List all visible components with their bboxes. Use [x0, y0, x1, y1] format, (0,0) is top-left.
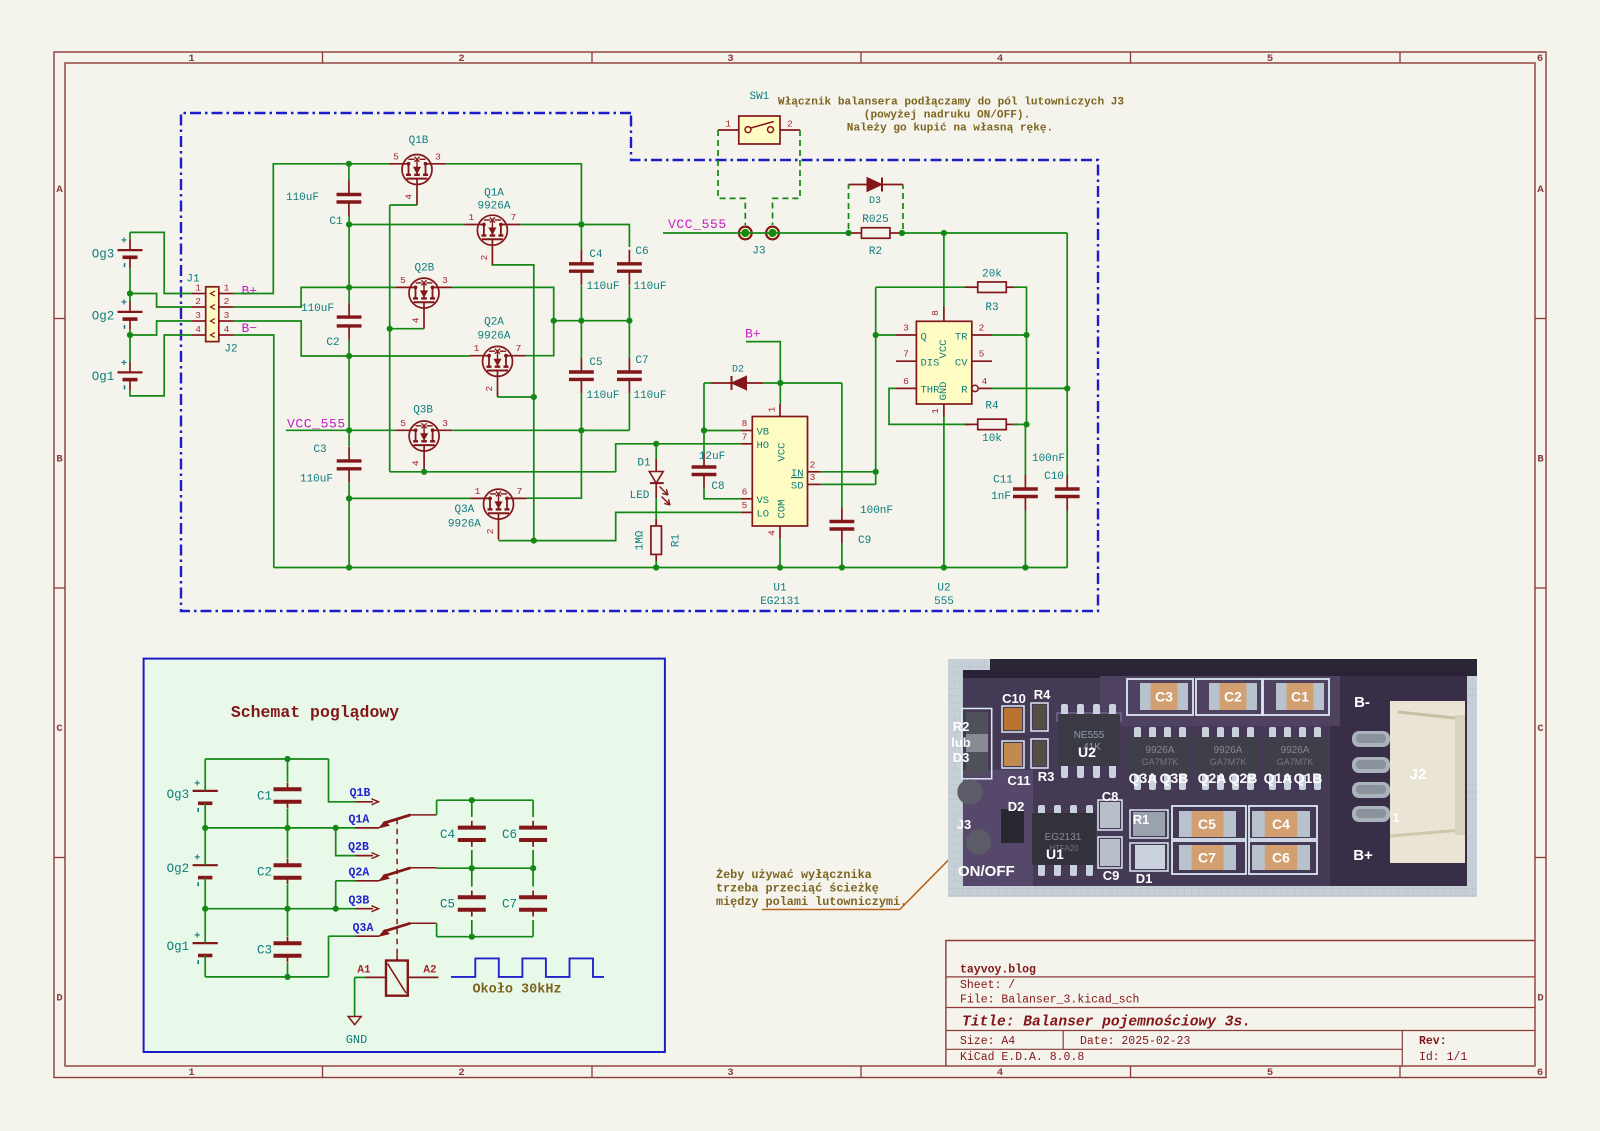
connector J1 J2 — [206, 287, 219, 342]
ov battery Og1 — [193, 942, 218, 944]
svg-text:Og1: Og1 — [167, 940, 190, 954]
pcb diode D2 — [1001, 809, 1024, 843]
wire og3-og2 junction jog to J1 pin2 — [129, 268, 131, 302]
svg-text:8: 8 — [930, 310, 941, 316]
node C3 bottom row to Q3A gate — [349, 497, 470, 499]
svg-text:1: 1 — [474, 343, 480, 354]
wire B+ to U1 VCC — [746, 342, 780, 404]
svg-text:B-: B- — [1354, 694, 1370, 711]
capacitor C2 — [348, 303, 350, 317]
wire U1 SD to 555 — [821, 483, 876, 485]
wire J2 pin2 to C1C2 node — [234, 287, 349, 307]
wire C3 bottom to rail — [348, 483, 350, 568]
svg-text:J3: J3 — [752, 246, 765, 258]
capacitor C3 — [348, 447, 350, 461]
wire og2-og1 junction jog to J1 pin3 — [129, 330, 131, 362]
callout arrow to J3 — [762, 909, 900, 911]
wire C1 row to C4 C6 tops — [520, 225, 629, 248]
capacitor C10 — [1066, 233, 1068, 388]
balancer module boundary box — [181, 113, 1098, 611]
wire B+ to C9 — [780, 382, 842, 384]
transistor Q2B — [409, 278, 439, 308]
svg-text:D1: D1 — [637, 458, 651, 470]
svg-text:R4: R4 — [1034, 687, 1051, 702]
transistor Q1A — [477, 215, 507, 245]
svg-text:C3: C3 — [257, 944, 272, 958]
svg-text:1: 1 — [725, 119, 731, 130]
svg-text:+: + — [194, 779, 200, 790]
node C3 rail — [346, 564, 352, 570]
svg-text:Q1B: Q1B — [350, 787, 371, 800]
svg-text:Size: A4: Size: A4 — [960, 1035, 1015, 1048]
svg-text:R3: R3 — [985, 302, 998, 314]
gnd rail — [274, 567, 1067, 569]
ov cap bank rails — [436, 800, 438, 815]
svg-text:D: D — [1537, 993, 1543, 1005]
diode D3 — [848, 185, 850, 230]
svg-text:C7: C7 — [1198, 850, 1216, 866]
svg-text:20k: 20k — [982, 269, 1002, 281]
svg-text:2: 2 — [458, 1067, 464, 1079]
wire HO to U1 pin7 — [616, 444, 741, 472]
svg-text:tayvoy.blog: tayvoy.blog — [960, 964, 1036, 977]
switch SW1 — [739, 116, 780, 144]
diode D1 LED — [653, 441, 659, 447]
svg-text:R4: R4 — [985, 401, 999, 413]
svg-text:+: + — [121, 237, 127, 248]
svg-text:C1: C1 — [329, 216, 343, 228]
svg-text:C11: C11 — [993, 475, 1013, 487]
svg-text:100nF: 100nF — [860, 505, 893, 517]
svg-text:C8: C8 — [1102, 789, 1119, 804]
svg-text:B: B — [56, 454, 63, 466]
capacitor C4 — [580, 225, 582, 251]
wire LO to U1 pin5 — [534, 512, 741, 540]
svg-text:R1: R1 — [1133, 812, 1150, 827]
svg-text:GA7M7K: GA7M7K — [1142, 757, 1179, 767]
svg-text:Q3B: Q3B — [413, 405, 433, 417]
svg-text:VS: VS — [757, 495, 770, 507]
ov top rail — [205, 758, 328, 760]
svg-text:Q1A: Q1A — [1264, 770, 1293, 786]
node C2 top row to Q2B gate — [349, 286, 396, 288]
svg-text:4: 4 — [411, 460, 422, 466]
wire C2 bottom chain — [348, 340, 350, 447]
svg-text:2: 2 — [787, 119, 793, 130]
ov row2 — [205, 908, 355, 910]
pcb chip U1 EG2131 — [1038, 805, 1045, 817]
svg-text:110uF: 110uF — [633, 390, 666, 402]
svg-text:Żeby używać wyłącznika: Żeby używać wyłącznika — [716, 868, 872, 882]
wire Q3A source — [499, 540, 534, 542]
svg-text:Około 30kHz: Około 30kHz — [472, 983, 561, 998]
ov gnd — [355, 976, 365, 978]
svg-text:COM: COM — [777, 500, 789, 519]
svg-text:1: 1 — [469, 212, 475, 223]
svg-text:C5: C5 — [440, 898, 455, 912]
svg-text:U2: U2 — [937, 583, 950, 595]
ov switch Q2A — [355, 880, 379, 882]
resistor R1 1M — [651, 526, 662, 555]
wire og1 bottom to J1 pin4 — [130, 335, 192, 396]
capacitor C11 — [1024, 424, 1026, 475]
svg-text:Q3A: Q3A — [454, 504, 474, 516]
svg-text:VCC_555: VCC_555 — [668, 217, 727, 232]
svg-text:J2: J2 — [224, 344, 237, 356]
node og3-og2 — [127, 290, 133, 296]
svg-text:3: 3 — [435, 151, 441, 162]
svg-text:2: 2 — [224, 296, 230, 307]
wire VCC_555 main — [663, 232, 849, 234]
connector J3 pads — [739, 227, 752, 240]
ov switch Q3B — [355, 908, 373, 910]
svg-text:J2: J2 — [1410, 766, 1427, 783]
svg-text:C6: C6 — [502, 828, 517, 842]
svg-text:1: 1 — [767, 406, 778, 412]
svg-text:B−: B− — [242, 321, 258, 336]
svg-text:7: 7 — [516, 343, 522, 354]
svg-text:1: 1 — [224, 282, 230, 293]
svg-text:Q: Q — [921, 331, 927, 343]
svg-text:Og3: Og3 — [167, 788, 190, 802]
transistor Q1B — [402, 155, 432, 185]
svg-text:C1: C1 — [257, 790, 272, 804]
svg-text:Title: Balanser pojemnościowy: Title: Balanser pojemnościowy 3s. — [962, 1015, 1251, 1031]
svg-text:9926A: 9926A — [1146, 745, 1175, 756]
ov capacitor C6 — [532, 800, 534, 817]
ov capacitor C1 — [287, 759, 289, 782]
svg-text:Q3B: Q3B — [1160, 770, 1189, 786]
battery Og2 — [118, 311, 143, 313]
wire U1 COM to rail — [779, 539, 781, 568]
battery Og1 — [118, 371, 143, 373]
svg-text:2: 2 — [979, 323, 985, 334]
node C1 bottom row to Q1A gate — [349, 224, 465, 226]
svg-text:1: 1 — [188, 1067, 194, 1079]
pcb chip U2 NE555 — [1056, 712, 1122, 722]
resistor R3 20k — [978, 282, 1007, 293]
svg-text:2: 2 — [458, 53, 464, 65]
ov battery Og3 — [193, 790, 218, 792]
svg-text:110uF: 110uF — [586, 281, 619, 293]
svg-text:U1: U1 — [773, 583, 787, 595]
ov capacitor C5 — [471, 868, 473, 886]
svg-text:3: 3 — [810, 472, 816, 483]
svg-text:C: C — [56, 723, 63, 735]
svg-text:VCC: VCC — [938, 340, 950, 359]
svg-text:trzeba przeciąć ścieżkę: trzeba przeciąć ścieżkę — [716, 882, 879, 896]
wire R3 left to Q — [876, 286, 971, 288]
svg-text:J3: J3 — [957, 817, 971, 832]
svg-text:12uF: 12uF — [699, 451, 725, 463]
svg-text:ON/OFF: ON/OFF — [958, 863, 1015, 880]
wire D2 anode to VB — [703, 383, 705, 431]
wire Q2B source — [390, 328, 424, 330]
svg-text:Q1B: Q1B — [1294, 770, 1323, 786]
svg-text:C3: C3 — [1155, 689, 1173, 705]
ic U2 555 — [916, 321, 971, 404]
svg-text:2: 2 — [810, 459, 816, 470]
svg-text:C1: C1 — [1291, 689, 1309, 705]
ov Q3A branch — [328, 936, 330, 977]
svg-text:D1: D1 — [1136, 871, 1153, 886]
ov capacitor C2 — [274, 863, 302, 867]
svg-text:3: 3 — [442, 418, 448, 429]
ov relay pin A1 — [365, 976, 386, 978]
svg-text:10k: 10k — [982, 433, 1002, 445]
svg-text:D3: D3 — [869, 196, 881, 207]
svg-text:R2: R2 — [953, 719, 970, 734]
pcb silkscreen boxes — [962, 709, 992, 779]
svg-text:Q1A: Q1A — [349, 814, 370, 827]
ov switch Q3A — [355, 935, 379, 937]
svg-text:D3: D3 — [953, 750, 970, 765]
svg-text:4: 4 — [411, 317, 422, 323]
svg-text:NE555: NE555 — [1074, 730, 1105, 741]
svg-text:Q2A: Q2A — [1198, 770, 1227, 786]
svg-text:4: 4 — [224, 324, 230, 335]
svg-text:KiCad E.D.A. 8.0.8: KiCad E.D.A. 8.0.8 — [960, 1051, 1084, 1064]
svg-text:R025: R025 — [862, 214, 888, 226]
wire top row Q1B drain — [445, 164, 581, 225]
svg-text:C4: C4 — [589, 249, 603, 261]
svg-text:2: 2 — [485, 528, 496, 534]
svg-text:Id: 1/1: Id: 1/1 — [1419, 1051, 1467, 1064]
svg-text:D: D — [56, 993, 62, 1005]
transistor Q3B — [409, 421, 439, 451]
svg-text:4: 4 — [982, 376, 988, 387]
svg-text:6: 6 — [742, 486, 748, 497]
wire 555 Q to U1 — [876, 334, 896, 336]
svg-text:9926A: 9926A — [477, 201, 510, 213]
ov relay pin A2 — [408, 976, 439, 978]
svg-text:A: A — [56, 184, 63, 196]
svg-text:VCC_555: VCC_555 — [287, 417, 346, 432]
svg-text:5: 5 — [400, 418, 406, 429]
capacitor C9 — [841, 383, 843, 508]
svg-text:9926A: 9926A — [1214, 745, 1243, 756]
svg-text:C5: C5 — [589, 357, 602, 369]
svg-text:Og3: Og3 — [92, 248, 115, 262]
ov battery column wires — [204, 759, 206, 791]
svg-text:B+: B+ — [745, 327, 761, 342]
ov Q2A jog — [335, 881, 337, 909]
svg-text:+: + — [121, 298, 127, 309]
ov Q1B branch — [329, 759, 356, 802]
ov capacitor C3 — [274, 941, 302, 945]
svg-text:5: 5 — [1267, 1067, 1273, 1079]
capacitor C8 — [703, 431, 705, 454]
svg-text:4: 4 — [195, 324, 201, 335]
svg-text:8: 8 — [742, 418, 748, 429]
wire 555 GND to rail — [943, 417, 945, 568]
svg-text:Q1B: Q1B — [409, 135, 429, 147]
ov row1 — [205, 827, 355, 829]
wire R4 right junction — [1013, 423, 1027, 425]
svg-text:File: Balanser_3.kicad_sch: File: Balanser_3.kicad_sch — [960, 994, 1139, 1007]
ov mech link dashed — [396, 819, 398, 960]
capacitor C7 — [628, 321, 630, 358]
capacitor C5 — [580, 321, 582, 358]
capacitor C1 — [348, 164, 350, 181]
svg-text:6: 6 — [903, 376, 909, 387]
svg-text:C6: C6 — [1272, 850, 1290, 866]
pcb capacitors top — [1140, 683, 1188, 710]
node C1 top — [346, 161, 352, 167]
svg-text:+: + — [194, 932, 200, 943]
svg-text:C4: C4 — [440, 828, 455, 842]
svg-text:1: 1 — [188, 53, 194, 65]
svg-text:SW1: SW1 — [749, 91, 769, 103]
node C2 bottom row to Q2A gate — [349, 355, 469, 357]
svg-text:Og1: Og1 — [92, 370, 115, 384]
svg-text:GA7M7K: GA7M7K — [1210, 757, 1247, 767]
resistor R4 10k — [978, 419, 1007, 430]
svg-text:9926A: 9926A — [448, 519, 481, 531]
svg-text:1MΩ: 1MΩ — [635, 530, 647, 550]
wire Q2A source — [498, 396, 534, 398]
svg-text:GA7M7K: GA7M7K — [1277, 757, 1314, 767]
svg-text:VB: VB — [757, 427, 770, 439]
ov Q2B jog — [336, 828, 355, 856]
svg-text:+: + — [194, 854, 200, 865]
svg-text:Q2B: Q2B — [1229, 770, 1258, 786]
svg-text:DIS: DIS — [921, 358, 940, 370]
capacitor C6 — [628, 250, 630, 264]
ov switch Q2B — [355, 855, 373, 857]
svg-text:Q2A: Q2A — [484, 317, 504, 329]
svg-text:B+: B+ — [1353, 847, 1373, 864]
wire C5 node to Q3A drain — [527, 430, 582, 498]
svg-text:A1: A1 — [357, 965, 371, 977]
svg-text:B+: B+ — [242, 284, 258, 299]
svg-text:C11: C11 — [1007, 773, 1030, 788]
svg-text:7: 7 — [742, 431, 748, 442]
ov switch Q1A — [355, 827, 379, 829]
svg-text:C2: C2 — [257, 866, 272, 880]
wire Q3B source to HO row — [390, 471, 616, 473]
node og2-og1 — [127, 332, 133, 338]
wire U1 IN to 555 — [821, 471, 876, 473]
pcb resistor R025 — [966, 712, 988, 774]
svg-text:CV: CV — [955, 358, 968, 370]
svg-text:C2: C2 — [1224, 689, 1242, 705]
wire 555 R to C10 column — [992, 387, 1067, 389]
svg-text:TR: TR — [955, 331, 968, 343]
svg-text:Q3A: Q3A — [1129, 770, 1158, 786]
svg-text:C3: C3 — [313, 444, 326, 456]
svg-text:Rev:: Rev: — [1419, 1035, 1447, 1048]
ov capacitor C7 — [532, 868, 534, 886]
svg-text:VCC: VCC — [777, 443, 789, 462]
svg-text:5: 5 — [979, 349, 985, 360]
svg-text:5: 5 — [1267, 53, 1273, 65]
svg-text:U1: U1 — [1046, 846, 1064, 862]
svg-text:2: 2 — [484, 386, 495, 392]
svg-text:C6: C6 — [635, 246, 648, 258]
wire B+ riser to top row — [234, 164, 390, 294]
svg-text:3: 3 — [442, 275, 448, 286]
title block — [946, 941, 1535, 1067]
svg-text:C8: C8 — [711, 481, 724, 493]
svg-text:2: 2 — [479, 254, 490, 260]
pcb connector J2 — [1352, 731, 1390, 747]
svg-text:C: C — [1537, 723, 1544, 735]
svg-text:Q2B: Q2B — [414, 263, 434, 275]
svg-text:SD: SD — [791, 480, 804, 492]
svg-text:Należy go kupić na własną rękę: Należy go kupić na własną rękę. — [847, 123, 1053, 135]
svg-text:7: 7 — [903, 349, 909, 360]
svg-text:GND: GND — [346, 1033, 368, 1047]
pcb capacitors bottom — [1179, 811, 1236, 837]
svg-text:3: 3 — [903, 323, 909, 334]
wire bat og3 top to J1 pin1 — [130, 232, 192, 293]
svg-text:7: 7 — [511, 212, 517, 223]
svg-text:1: 1 — [1392, 810, 1399, 825]
svg-text:3: 3 — [224, 310, 230, 321]
wire LED to R1 — [655, 498, 657, 526]
svg-text:9926A: 9926A — [477, 331, 510, 343]
svg-text:110uF: 110uF — [286, 192, 319, 204]
svg-text:C10: C10 — [1044, 471, 1064, 483]
svg-text:Date: 2025-02-23: Date: 2025-02-23 — [1080, 1035, 1191, 1048]
svg-text:4: 4 — [767, 530, 778, 536]
svg-text:lub: lub — [951, 735, 971, 750]
svg-text:6: 6 — [1537, 1067, 1543, 1079]
svg-text:R1: R1 — [671, 534, 683, 548]
wire 555 TR — [992, 334, 1027, 336]
wire 555 THR to R4 — [889, 388, 971, 424]
svg-text:+: + — [121, 359, 127, 370]
svg-text:5: 5 — [400, 275, 406, 286]
svg-text:Q3B: Q3B — [349, 895, 370, 908]
svg-text:A2: A2 — [423, 965, 436, 977]
svg-text:6: 6 — [1537, 53, 1543, 65]
svg-text:4: 4 — [997, 53, 1003, 65]
ov capacitor C4 — [471, 800, 473, 817]
svg-text:100nF: 100nF — [1032, 453, 1065, 465]
svg-text:J1: J1 — [186, 274, 200, 286]
ov battery Og2 — [193, 864, 218, 866]
svg-text:C7: C7 — [502, 898, 517, 912]
svg-text:Og2: Og2 — [92, 309, 115, 323]
svg-text:Q2A: Q2A — [349, 867, 370, 880]
wire mid cap row — [580, 286, 582, 321]
ov bottom rail — [205, 976, 328, 978]
svg-text:2: 2 — [195, 296, 201, 307]
ov square wave — [451, 958, 604, 977]
wire Q1A source to A-chain — [492, 265, 533, 541]
svg-text:(powyżej nadruku ON/OFF).: (powyżej nadruku ON/OFF). — [864, 110, 1030, 122]
wire B- to gnd rail — [234, 335, 274, 568]
svg-text:110uF: 110uF — [586, 390, 619, 402]
svg-text:C10: C10 — [1002, 691, 1026, 706]
svg-text:A: A — [1537, 184, 1544, 196]
diode D2 — [704, 382, 711, 384]
svg-text:3: 3 — [727, 53, 733, 65]
svg-text:C9: C9 — [858, 535, 871, 547]
svg-text:HO: HO — [757, 440, 770, 452]
svg-text:LED: LED — [630, 490, 650, 502]
pcb pads J3 — [957, 779, 982, 804]
battery Og3 — [118, 249, 143, 251]
svg-text:Schemat poglądowy: Schemat poglądowy — [231, 703, 399, 722]
svg-text:D2: D2 — [1008, 799, 1025, 814]
svg-text:LO: LO — [757, 508, 770, 520]
svg-text:5: 5 — [742, 500, 748, 511]
pcb board — [963, 670, 1467, 886]
svg-text:EG2131: EG2131 — [1045, 832, 1082, 843]
